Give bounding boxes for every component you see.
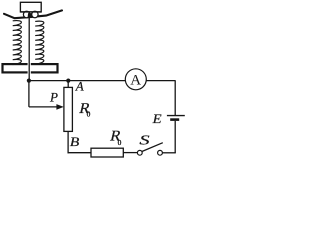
wire top right segment [141, 80, 176, 82]
wire R0 to switch [123, 152, 137, 154]
battery E short plate [170, 118, 179, 121]
node left junction [27, 79, 31, 83]
ammeter A [125, 69, 146, 90]
platform pan [4, 10, 62, 18]
base box [3, 64, 58, 72]
svg-text:A: A [130, 73, 141, 89]
wire right side above battery [174, 81, 176, 115]
wire right side below battery [174, 121, 176, 153]
svg-text:R: R [78, 100, 93, 117]
svg-text:A: A [75, 79, 84, 94]
svg-text:P: P [49, 90, 58, 105]
svg-text:E: E [151, 111, 161, 126]
wire top (junction to ammeter) [29, 80, 130, 82]
spring right [35, 21, 44, 64]
slider arrowhead P [56, 104, 63, 110]
cart wheel right [32, 11, 38, 17]
rod coupling wedge under cart [28, 13, 32, 17]
switch contact left [137, 150, 142, 155]
spring left [13, 21, 22, 65]
wire resistor bottom to corner B [67, 131, 69, 153]
resistor R0 vertical (sensor) [64, 87, 73, 131]
cart box M [20, 2, 41, 12]
resistor R0 bottom [91, 148, 123, 157]
cart underside edge [20, 11, 41, 13]
battery E long plate [167, 115, 185, 117]
cart wheel left [23, 11, 29, 17]
wire slider lead down [28, 81, 30, 107]
svg-text:B: B [70, 134, 80, 149]
wire slider lead right [29, 106, 58, 108]
svg-text:S: S [139, 132, 150, 147]
switch lever S [142, 143, 163, 152]
svg-text:R: R [109, 128, 124, 145]
gap in base box for rod [28, 62, 31, 74]
svg-text:0: 0 [118, 138, 122, 147]
switch contact right [158, 150, 163, 155]
svg-text:0: 0 [87, 110, 91, 119]
rod (mechanical link from pan to slider) [28, 17, 30, 81]
node A junction [66, 79, 70, 83]
wire switch to corner [162, 152, 176, 154]
wire bottom left segment [68, 152, 92, 154]
wire stub node A to resistor top [67, 81, 69, 88]
